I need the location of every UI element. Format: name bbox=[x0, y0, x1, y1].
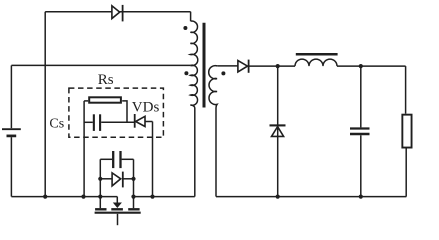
MOSFET Q drain stub bbox=[133, 197, 135, 209]
diode freewheel cathode bar bbox=[270, 124, 286, 126]
diode VDs right lead bbox=[145, 121, 153, 123]
wire snubber right vertical bbox=[152, 122, 154, 197]
MOSFET Q source bar bbox=[95, 208, 106, 210]
battery positive plate bbox=[2, 128, 21, 130]
wire load branch bottom bbox=[405, 149, 407, 197]
battery bottom lead bbox=[10, 137, 12, 196]
capacitor Cs right plate bbox=[99, 114, 101, 131]
wire MOSFET right rail bbox=[133, 159, 135, 196]
wire secondary top to rectifier bbox=[217, 65, 238, 67]
wire middle rail bbox=[11, 64, 190, 66]
capacitor across MOSFET left lead bbox=[100, 158, 112, 160]
wire transformer primary bottom lead bbox=[194, 108, 196, 197]
polarity dot secondary bbox=[221, 71, 225, 75]
wire filter cap branch bottom bbox=[360, 135, 362, 196]
capacitor Cs left plate bbox=[93, 114, 95, 131]
capacitor across MOSFET right plate bbox=[119, 151, 121, 168]
capacitor Cs right lead bbox=[101, 121, 135, 123]
diode freewheel triangle bbox=[272, 127, 284, 137]
MOSFET Q body stub bbox=[116, 197, 118, 203]
junction snubber right bottom bbox=[150, 195, 154, 199]
junction body diode left bbox=[98, 177, 102, 181]
transformer reset winding top lead bbox=[190, 12, 192, 22]
junction filter cap bottom bbox=[359, 195, 363, 199]
transformer reset winding bbox=[190, 21, 197, 66]
junction body diode right bbox=[131, 177, 135, 181]
transformer core bar bbox=[203, 23, 206, 108]
diode VD2 clamp triangle bbox=[112, 6, 120, 19]
diode body anode wire bbox=[100, 178, 112, 180]
battery negative plate bbox=[7, 135, 17, 138]
diode body cathode wire bbox=[123, 178, 134, 180]
svg-text:VDs: VDs bbox=[132, 100, 160, 116]
diode body triangle bbox=[112, 173, 121, 186]
diode VD2 clamp cathode bar bbox=[122, 5, 124, 22]
wire top loop horizontal bbox=[45, 11, 190, 13]
transformer primary winding bbox=[190, 65, 197, 107]
resistor Rs left lead bbox=[84, 100, 88, 102]
MOSFET Q body bar bbox=[111, 208, 123, 210]
junction source rail bottom bbox=[98, 195, 102, 199]
wire top loop left vertical bbox=[44, 12, 46, 197]
wire bottom-left rail bbox=[11, 196, 117, 198]
junction filter cap top bbox=[359, 64, 363, 68]
diode body cathode bar bbox=[122, 172, 124, 188]
MOSFET Q source stub bbox=[99, 197, 101, 209]
battery top lead bbox=[10, 65, 12, 128]
MOSFET Q drain bar bbox=[128, 208, 139, 210]
diode rectifier triangle bbox=[238, 61, 248, 72]
wire freewheel branch bbox=[277, 66, 279, 197]
polarity dot primary bbox=[184, 71, 188, 75]
inductor L winding bbox=[295, 59, 337, 66]
inductor L core bar bbox=[296, 53, 338, 56]
polarity dot reset winding bbox=[183, 26, 187, 30]
junction snubber left bottom bbox=[81, 195, 85, 199]
capacitor across MOSFET left plate bbox=[112, 151, 114, 168]
wire filter cap branch top bbox=[360, 66, 362, 127]
capacitor across MOSFET right lead bbox=[122, 158, 134, 160]
junction top loop bottom bbox=[43, 195, 47, 199]
MOSFET Q gate line bbox=[95, 212, 141, 214]
wire load branch top bbox=[405, 66, 407, 114]
wire output top rail bbox=[249, 65, 406, 67]
resistor R load body bbox=[402, 115, 411, 148]
wire secondary bottom lead bbox=[215, 108, 217, 197]
capacitor C filter bottom plate bbox=[350, 133, 370, 136]
diode rectifier cathode bar bbox=[248, 60, 250, 73]
wire MOSFET left rail bbox=[99, 159, 101, 196]
diode VDs triangle bbox=[136, 116, 145, 126]
diode VDs cathode bar bbox=[134, 114, 136, 128]
wire bottom drain segment bbox=[134, 196, 195, 198]
MOSFET Q body arrow bbox=[113, 203, 122, 209]
MOSFET Q gate lead bbox=[117, 214, 119, 225]
junction freewheel top bbox=[276, 64, 280, 68]
wire bottom-right rail bbox=[216, 195, 406, 197]
resistor Rs right lead bbox=[122, 101, 127, 122]
wire snubber left vertical bbox=[83, 101, 85, 197]
junction drain rail bottom bbox=[131, 195, 135, 199]
transformer secondary winding bbox=[209, 66, 217, 108]
snubber dashed box bbox=[69, 88, 163, 137]
svg-text:Cs: Cs bbox=[49, 117, 64, 132]
capacitor C filter top plate bbox=[350, 127, 370, 129]
resistor Rs body bbox=[89, 97, 121, 102]
junction freewheel bottom bbox=[276, 195, 280, 199]
svg-text:Rs: Rs bbox=[98, 72, 114, 88]
capacitor Cs left lead bbox=[84, 121, 93, 123]
